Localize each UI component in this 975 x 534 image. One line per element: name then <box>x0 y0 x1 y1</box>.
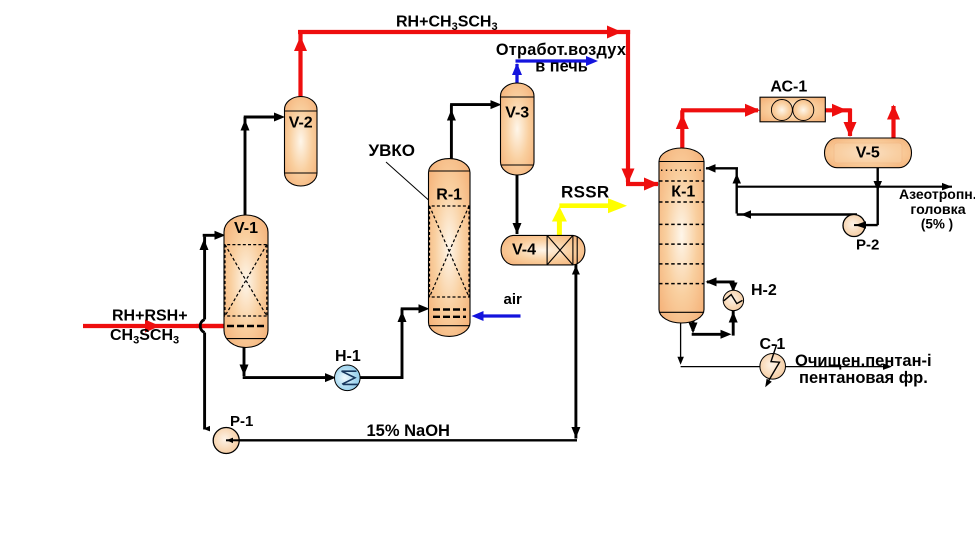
svg-text:RH+CH3SCH3: RH+CH3SCH3 <box>396 14 498 34</box>
svg-text:в печь: в печь <box>535 58 587 76</box>
svg-text:Азеотропн.: Азеотропн. <box>899 186 975 202</box>
svg-text:V-3: V-3 <box>505 105 529 122</box>
svg-text:(5% ): (5% ) <box>921 217 953 232</box>
svg-text:АС-1: АС-1 <box>770 79 807 96</box>
svg-text:Очищен.пентан-і: Очищен.пентан-і <box>795 352 932 370</box>
svg-text:air: air <box>504 291 523 308</box>
svg-text:CH3SCH3: CH3SCH3 <box>110 327 179 347</box>
svg-text:УВКО: УВКО <box>369 141 415 160</box>
svg-text:15% NaOH: 15% NaOH <box>367 422 450 440</box>
svg-text:пентановая фр.: пентановая фр. <box>799 369 928 387</box>
svg-text:Н-1: Н-1 <box>335 348 361 365</box>
svg-text:V-2: V-2 <box>289 115 313 132</box>
svg-text:Отработ.воздух: Отработ.воздух <box>496 41 626 59</box>
svg-text:V-4: V-4 <box>512 242 536 259</box>
svg-text:RH+RSH+: RH+RSH+ <box>112 308 188 325</box>
svg-text:V-5: V-5 <box>856 145 880 162</box>
svg-text:Р-2: Р-2 <box>856 237 879 254</box>
svg-text:С-1: С-1 <box>760 336 786 353</box>
svg-text:К-1: К-1 <box>671 184 695 201</box>
svg-text:Н-2: Н-2 <box>751 282 777 299</box>
svg-text:R-1: R-1 <box>436 187 462 204</box>
svg-text:Р-1: Р-1 <box>230 413 253 430</box>
svg-text:V-1: V-1 <box>234 220 258 237</box>
svg-text:RSSR: RSSR <box>561 183 609 202</box>
